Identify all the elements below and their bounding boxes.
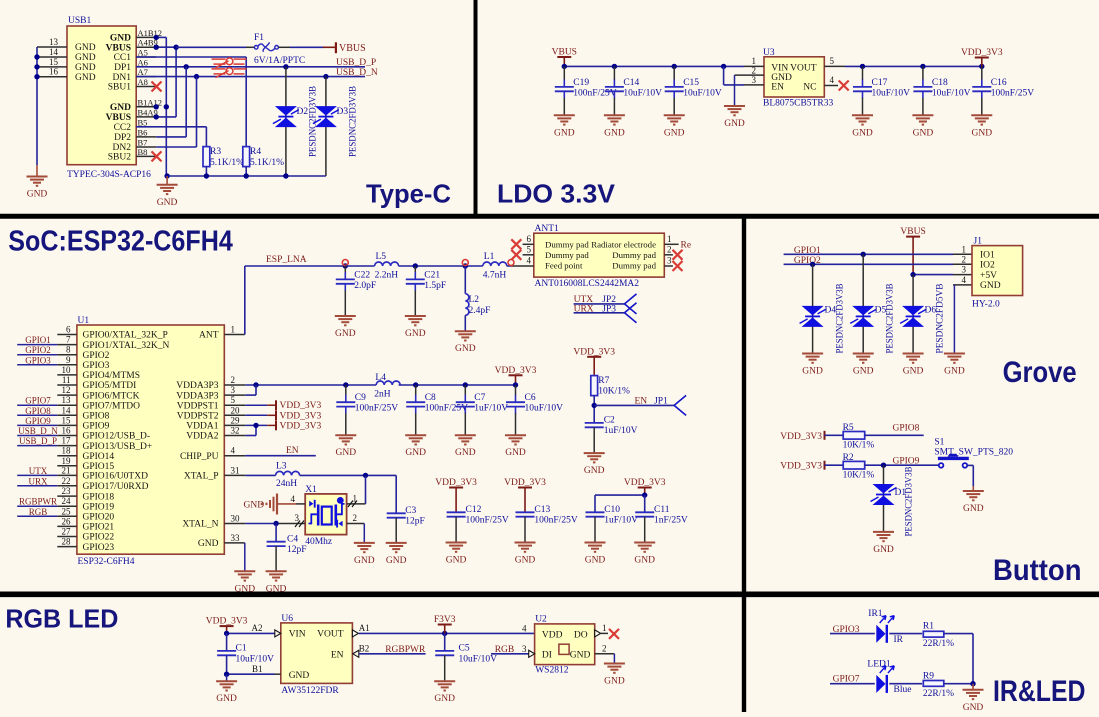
svg-text:GPIO17/U0RXD: GPIO17/U0RXD	[83, 482, 149, 492]
power port VDD_3V3 (C6)	[495, 366, 537, 388]
wire GPIO7 to LED	[830, 683, 875, 685]
svg-text:CC2: CC2	[114, 123, 132, 133]
diode D2 part number	[308, 86, 318, 157]
svg-text:JP3: JP3	[602, 304, 616, 314]
svg-text:JP1: JP1	[654, 397, 668, 407]
svg-text:C14: C14	[623, 78, 639, 88]
svg-text:Dummy pad: Dummy pad	[545, 250, 589, 260]
capacitor C17	[852, 66, 910, 138]
inductor L3	[276, 462, 300, 490]
jumper JP2 UTX	[574, 294, 637, 314]
wire ANT to ESP_LNA	[224, 266, 345, 335]
U6 pin B2 EN	[353, 643, 426, 657]
svg-text:C8: C8	[425, 393, 436, 403]
svg-text:RGB LED: RGB LED	[5, 605, 118, 633]
U3 pin 2	[735, 65, 765, 75]
svg-text:C1: C1	[236, 644, 247, 654]
svg-text:A5: A5	[138, 48, 148, 58]
svg-text:Feed point: Feed point	[545, 260, 583, 270]
svg-text:12pF: 12pF	[287, 545, 307, 555]
section title RGB LED	[5, 605, 118, 633]
svg-text:Grove: Grove	[1003, 356, 1077, 389]
svg-text:+5V: +5V	[980, 271, 997, 281]
designator IR1	[868, 609, 883, 619]
wire R1 to GND corner	[944, 634, 973, 684]
svg-text:DI: DI	[542, 650, 552, 660]
svg-text:100nF/25V: 100nF/25V	[991, 88, 1034, 98]
svg-text:C2: C2	[604, 416, 615, 426]
svg-text:10uF/10V: 10uF/10V	[932, 88, 971, 98]
connector J1 part number	[972, 300, 1000, 310]
svg-text:GPIO1: GPIO1	[25, 335, 51, 345]
svg-text:R4: R4	[250, 147, 261, 157]
U3 pin 4 NC	[824, 75, 848, 91]
wire R2 GPIO9 to S1	[865, 457, 939, 468]
connector USB1 part number	[67, 170, 151, 180]
svg-text:24nH: 24nH	[276, 479, 297, 489]
ground symbol pin 33	[234, 571, 255, 594]
wire CC2 to R3	[136, 127, 206, 147]
svg-text:3: 3	[522, 644, 527, 654]
svg-text:GPIO14: GPIO14	[83, 452, 115, 462]
wire CC1 to R4	[136, 57, 246, 147]
svg-text:22R/1%: 22R/1%	[923, 689, 954, 699]
wire XTAL_N	[224, 521, 278, 526]
node L2 junction	[462, 260, 468, 266]
svg-text:GND: GND	[455, 344, 476, 354]
svg-text:GND: GND	[455, 448, 476, 458]
svg-text:GND: GND	[903, 367, 924, 377]
capacitor C13	[515, 505, 578, 566]
ground rail Type-C	[164, 173, 325, 178]
svg-text:R5: R5	[843, 423, 854, 433]
inductor L5	[345, 252, 398, 281]
section title Type-C	[366, 179, 451, 209]
U3 pin 1	[744, 56, 764, 66]
svg-text:16: 16	[49, 67, 59, 77]
svg-text:GPIO13/USB_D+: GPIO13/USB_D+	[83, 442, 153, 452]
svg-text:1: 1	[602, 623, 607, 633]
svg-text:C13: C13	[534, 505, 550, 515]
crystal X1 pin 4	[291, 494, 306, 504]
ground symbol D6	[903, 354, 924, 377]
inductor L1	[483, 252, 507, 281]
net label GPIO7	[833, 675, 860, 685]
section divider vertical right (SoC / right column)	[742, 216, 746, 712]
svg-text:GPIO9: GPIO9	[25, 416, 51, 426]
svg-text:GPIO7: GPIO7	[25, 396, 51, 406]
svg-text:C7: C7	[474, 393, 485, 403]
svg-text:PESDNC2FD3V3B: PESDNC2FD3V3B	[885, 284, 895, 354]
jumper JP1	[674, 395, 686, 415]
svg-text:GND: GND	[853, 367, 874, 377]
svg-text:VDDPST2: VDDPST2	[177, 412, 219, 422]
wire J1 GND	[953, 285, 972, 354]
capacitor C22	[335, 266, 376, 339]
svg-text:ESP32-C6FH4: ESP32-C6FH4	[78, 557, 135, 567]
U2 pin 2 GND	[595, 643, 615, 663]
svg-text:GND: GND	[554, 128, 575, 138]
wire C1 to U6 B1	[224, 664, 275, 681]
svg-text:GPIO21: GPIO21	[83, 523, 115, 533]
capacitor C15	[664, 66, 722, 138]
ANT1 pin 1	[664, 234, 691, 251]
svg-text:Blue: Blue	[894, 685, 912, 695]
svg-text:4.7nH: 4.7nH	[483, 271, 507, 281]
power port VDD_3V3 (C10/C11)	[624, 478, 666, 495]
svg-text:10uF/10V: 10uF/10V	[683, 88, 722, 98]
svg-text:2: 2	[353, 513, 358, 523]
capacitor C7	[455, 385, 508, 458]
svg-text:Re: Re	[681, 241, 692, 251]
svg-text:8: 8	[66, 345, 71, 355]
svg-text:EN: EN	[771, 82, 784, 92]
svg-text:15: 15	[62, 415, 72, 425]
svg-text:40Mhz: 40Mhz	[305, 537, 332, 547]
svg-text:24: 24	[62, 496, 72, 506]
svg-text:2: 2	[231, 375, 236, 385]
svg-text:U6: U6	[281, 614, 293, 624]
svg-text:C5: C5	[459, 644, 470, 654]
svg-text:A7: A7	[138, 67, 148, 77]
ground symbol D4	[802, 354, 823, 377]
net label USB_D_P	[336, 58, 376, 68]
svg-text:GPIO3: GPIO3	[83, 361, 110, 371]
inductor L4	[374, 373, 400, 400]
svg-text:GND: GND	[198, 539, 219, 549]
svg-text:EN: EN	[635, 397, 648, 407]
svg-text:RGBPWR: RGBPWR	[19, 497, 57, 507]
svg-text:IO2: IO2	[980, 261, 995, 271]
section divider vertical top (Type-C / LDO)	[474, 0, 478, 216]
svg-text:29: 29	[231, 415, 241, 425]
svg-text:5: 5	[527, 245, 532, 255]
resistor R3	[203, 147, 244, 168]
ESD suppressor glyph upper	[212, 58, 247, 68]
svg-text:A2: A2	[252, 623, 263, 633]
svg-text:2: 2	[602, 643, 607, 653]
diode D1 part number	[904, 467, 914, 537]
wire R3 to rail	[205, 167, 207, 176]
svg-text:GND: GND	[963, 504, 984, 514]
svg-text:L3: L3	[276, 462, 287, 472]
svg-text:GPIO2: GPIO2	[25, 345, 51, 355]
svg-text:VDDA3P3: VDDA3P3	[176, 391, 218, 401]
svg-text:GND: GND	[235, 584, 256, 594]
svg-text:SBU1: SBU1	[108, 83, 131, 93]
power port VDD_3V3 (U6)	[206, 617, 248, 634]
antenna ANT1 part number	[535, 279, 640, 289]
svg-text:BL8075CB5TR33: BL8075CB5TR33	[763, 99, 833, 109]
svg-text:GPIO3: GPIO3	[25, 355, 51, 365]
svg-text:F1: F1	[254, 33, 264, 43]
ANT1 pin 4 feed	[508, 256, 534, 267]
svg-text:4: 4	[522, 623, 527, 633]
ic U6 body	[281, 614, 353, 683]
section title LDO 3.3V	[497, 179, 616, 209]
svg-text:GPIO16/U0TXD: GPIO16/U0TXD	[83, 472, 149, 482]
wire EN JP1	[594, 397, 674, 407]
ground symbol IR&LED	[963, 684, 984, 713]
svg-text:GPIO7/MTDO: GPIO7/MTDO	[83, 401, 141, 411]
U6 pin A1	[352, 623, 534, 637]
svg-text:VBUS: VBUS	[106, 43, 131, 53]
wire DP2 riser	[156, 67, 186, 137]
svg-text:R3: R3	[210, 147, 221, 157]
svg-text:2: 2	[667, 245, 672, 255]
svg-text:R7: R7	[598, 376, 609, 386]
svg-text:L5: L5	[376, 252, 387, 262]
svg-text:RGB: RGB	[29, 507, 48, 517]
svg-text:GND: GND	[802, 367, 823, 377]
capacitor C2	[584, 416, 638, 477]
wire GPIO3 to LED	[830, 633, 875, 635]
svg-text:33: 33	[231, 533, 241, 543]
svg-text:1: 1	[231, 325, 236, 335]
svg-text:C6: C6	[525, 393, 536, 403]
wire +5V to J1	[910, 272, 972, 277]
svg-text:R9: R9	[923, 671, 934, 681]
svg-text:PESDNC2FD3V3B: PESDNC2FD3V3B	[348, 86, 358, 157]
svg-text:UTX: UTX	[29, 466, 48, 476]
U2 pin 4 number	[522, 623, 527, 633]
svg-text:X1: X1	[305, 485, 317, 495]
svg-text:EN: EN	[286, 446, 299, 456]
svg-text:GND: GND	[972, 128, 993, 138]
svg-text:VDDA3P3: VDDA3P3	[176, 381, 218, 391]
svg-text:1: 1	[667, 234, 672, 244]
svg-text:LDO 3.3V: LDO 3.3V	[497, 179, 616, 209]
svg-text:GND: GND	[336, 448, 357, 458]
no-connect X on pin B8	[152, 151, 162, 161]
svg-text:VDD_3V3: VDD_3V3	[280, 411, 322, 421]
jumper JP3 URX	[574, 303, 637, 323]
svg-text:4: 4	[527, 256, 532, 266]
svg-text:GND: GND	[963, 703, 984, 712]
crystal X1 pin 2	[347, 513, 365, 543]
svg-text:GND: GND	[980, 281, 1001, 291]
svg-text:12: 12	[62, 385, 71, 395]
svg-text:31: 31	[231, 465, 240, 475]
svg-text:VDD_3V3: VDD_3V3	[280, 421, 322, 431]
svg-text:ANT016008LCS2442MA2: ANT016008LCS2442MA2	[535, 279, 640, 289]
ANT1 pin 3	[664, 256, 682, 272]
section divider horizontal top	[0, 214, 1099, 219]
U6 pin B1 wire	[275, 673, 281, 675]
svg-text:26: 26	[62, 516, 72, 526]
diode D6	[900, 275, 936, 354]
capacitor C18	[912, 66, 970, 138]
svg-text:GND: GND	[604, 128, 625, 138]
svg-text:GND: GND	[873, 545, 894, 555]
antenna ANT1 pad names	[545, 240, 657, 271]
ground symbol left of USB1	[27, 165, 48, 200]
svg-text:GPIO18: GPIO18	[83, 492, 115, 502]
diode D4	[800, 264, 837, 353]
connector J1 body	[972, 237, 1023, 296]
ANT1 pin 5	[511, 245, 534, 260]
svg-text:32: 32	[231, 426, 240, 436]
SoC left net labels	[18, 335, 58, 517]
net label GPIO3	[833, 625, 860, 635]
svg-text:GND: GND	[244, 501, 265, 511]
svg-text:VBUS: VBUS	[339, 43, 366, 54]
svg-text:GND: GND	[266, 584, 287, 594]
svg-text:7: 7	[66, 335, 71, 345]
svg-text:5: 5	[231, 395, 236, 405]
ANT1 pin 2	[664, 245, 682, 260]
svg-text:GND: GND	[157, 198, 178, 208]
diode D5 part number	[885, 284, 895, 354]
wire VBUS to fuse	[176, 46, 254, 48]
power port VBUS	[336, 42, 366, 54]
power port F3V3	[434, 615, 456, 633]
svg-text:ESP_LNA: ESP_LNA	[266, 255, 307, 265]
ground symbol U2	[604, 664, 625, 687]
svg-text:C3: C3	[405, 506, 416, 516]
svg-text:1uF/10V: 1uF/10V	[604, 516, 638, 526]
svg-text:20: 20	[231, 405, 241, 415]
svg-text:GPIO12/USB_D-: GPIO12/USB_D-	[83, 432, 151, 442]
svg-text:GND: GND	[75, 73, 96, 83]
ic U2 part number	[535, 666, 569, 676]
svg-text:11: 11	[62, 375, 71, 385]
svg-text:SBU2: SBU2	[108, 153, 131, 163]
ic U6 part number	[281, 686, 339, 696]
svg-text:GPIO6/MTCK: GPIO6/MTCK	[83, 391, 140, 401]
svg-text:C12: C12	[466, 505, 482, 515]
svg-text:2.4pF: 2.4pF	[469, 306, 491, 316]
power port VDD_3V3 (R7)	[573, 347, 615, 375]
svg-text:3: 3	[962, 265, 967, 275]
svg-text:10uF/10V: 10uF/10V	[872, 88, 911, 98]
USB1 left pins 13-16	[37, 37, 67, 77]
svg-text:B2: B2	[359, 643, 370, 653]
power port VDD_3V3 (C13)	[504, 478, 546, 512]
svg-text:RGB: RGB	[495, 645, 515, 655]
diode D6 part number	[935, 284, 945, 354]
regulator U3 body	[763, 48, 824, 97]
net label ESP_LNA	[266, 255, 307, 265]
section title SoC:ESP32-C6FH4	[8, 226, 233, 258]
crystal X1 body	[305, 485, 346, 547]
svg-text:GPIO8: GPIO8	[25, 406, 51, 416]
svg-text:WS2812: WS2812	[535, 666, 569, 676]
svg-text:A1: A1	[359, 623, 370, 633]
svg-text:VBUS: VBUS	[106, 113, 131, 123]
svg-text:2.0pF: 2.0pF	[354, 281, 376, 291]
SoC U1 right pin names	[176, 325, 240, 550]
svg-text:CC1: CC1	[114, 53, 132, 63]
svg-text:C10: C10	[604, 505, 620, 515]
capacitor C9	[335, 385, 398, 458]
wire U3 GND pin	[734, 75, 736, 106]
svg-text:GND: GND	[771, 73, 792, 83]
svg-text:GND: GND	[386, 556, 407, 566]
svg-text:J1: J1	[974, 237, 983, 247]
USB1 left pin names GND	[75, 43, 96, 83]
svg-text:A6: A6	[138, 57, 148, 67]
svg-text:21: 21	[62, 465, 71, 475]
svg-text:10K/1%: 10K/1%	[843, 441, 875, 451]
svg-text:GND: GND	[604, 677, 625, 687]
svg-text:10K/1%: 10K/1%	[598, 387, 630, 397]
svg-text:USB_D_N: USB_D_N	[336, 68, 378, 78]
capacitor C5	[435, 633, 497, 681]
wire R5 GPIO8	[865, 424, 924, 436]
svg-text:27: 27	[62, 527, 72, 537]
diode D5	[850, 254, 886, 353]
svg-text:ANT: ANT	[199, 331, 219, 341]
connector USB1 body	[67, 16, 136, 165]
svg-text:HY-2.0: HY-2.0	[972, 300, 1000, 310]
svg-text:XTAL_N: XTAL_N	[182, 520, 218, 530]
ground symbol X1 pin4 (rotated)	[244, 494, 297, 515]
svg-text:PESDNC2FD5VB: PESDNC2FD5VB	[935, 284, 945, 354]
svg-text:C18: C18	[932, 78, 948, 88]
svg-text:5.1K/1%: 5.1K/1%	[250, 158, 284, 168]
ground symbol L2	[455, 331, 476, 354]
svg-text:B8: B8	[138, 147, 148, 157]
svg-text:GND: GND	[27, 190, 48, 200]
ic U2 body	[535, 615, 595, 665]
svg-text:10uF/10V: 10uF/10V	[459, 654, 498, 664]
wire GND bus A1B12-B1A12	[154, 35, 170, 176]
svg-text:28: 28	[62, 537, 72, 547]
power port VDD_3V3 (C12)	[435, 478, 477, 512]
antenna ANT1 body	[534, 224, 665, 277]
svg-text:4: 4	[231, 446, 236, 456]
power ports VDD_3V3 pins 5/20/29	[224, 400, 321, 431]
svg-text:C17: C17	[872, 78, 888, 88]
wire RGB to U2 DI	[491, 644, 529, 655]
svg-text:VDDA1: VDDA1	[186, 422, 218, 432]
svg-text:ANT1: ANT1	[535, 224, 560, 234]
wire C10 C11 tie	[595, 492, 647, 512]
resistor R1	[923, 621, 954, 649]
led IR1	[876, 616, 903, 645]
svg-text:SMT_SW_PTS_820: SMT_SW_PTS_820	[934, 447, 1013, 457]
svg-text:Button: Button	[993, 554, 1082, 587]
fuse F1	[254, 33, 305, 66]
svg-text:R2: R2	[843, 453, 854, 463]
svg-text:VDD_3V3: VDD_3V3	[780, 432, 822, 442]
ground symbol D5	[853, 354, 874, 377]
svg-text:100nF/25V: 100nF/25V	[425, 404, 468, 414]
net label GPIO2	[794, 256, 821, 266]
svg-text:15: 15	[49, 57, 59, 67]
svg-text:URX: URX	[574, 304, 594, 314]
regulator U3 part number	[763, 99, 833, 109]
wire EN riser	[724, 66, 744, 85]
U2 thermal pad square	[559, 644, 569, 654]
svg-text:GPIO15: GPIO15	[83, 462, 115, 472]
capacitor C10	[585, 505, 639, 566]
svg-text:VDD: VDD	[542, 631, 563, 641]
svg-text:3: 3	[752, 75, 757, 85]
ground symbol Type-C rail	[157, 176, 178, 208]
crystal X1 glyph	[309, 497, 345, 528]
svg-text:EN: EN	[331, 650, 344, 660]
svg-text:VDD_3V3: VDD_3V3	[280, 401, 322, 411]
svg-text:C9: C9	[355, 393, 366, 403]
crystal X1 pin 3	[276, 513, 305, 527]
svg-text:100nF/25V: 100nF/25V	[355, 404, 398, 414]
svg-text:GND: GND	[110, 103, 131, 113]
svg-text:GND: GND	[570, 650, 591, 660]
svg-text:100nF/25V: 100nF/25V	[534, 516, 577, 526]
section title IR&LED	[993, 675, 1086, 708]
